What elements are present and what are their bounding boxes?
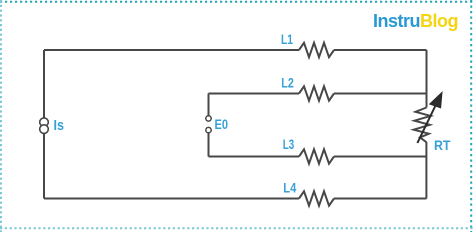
rheostat RT arrow xyxy=(417,92,442,143)
rheostat RT zigzag xyxy=(414,108,431,143)
wire: L2 row right segment xyxy=(334,93,427,95)
svg-text:L4: L4 xyxy=(283,180,296,196)
wire: E0 vertical upper xyxy=(208,94,210,116)
current source Is symbol xyxy=(40,118,49,134)
wire: L4 row right segment xyxy=(334,198,427,200)
wire: E0 vertical lower xyxy=(208,133,210,157)
wire: L1 row right segment xyxy=(334,49,427,51)
wire: right vertical upper (L1 to RT) xyxy=(426,50,428,108)
svg-text:E0: E0 xyxy=(215,116,229,132)
wire: top-left L1 row left segment xyxy=(44,49,299,51)
resistor L2 xyxy=(299,86,334,100)
wire: left vertical lower (Is to bottom corner) xyxy=(43,133,45,198)
svg-text:L1: L1 xyxy=(281,31,293,47)
svg-text:RT: RT xyxy=(434,137,451,153)
wire: L4 row left segment xyxy=(44,198,299,200)
wire: L2 row left segment xyxy=(209,93,300,95)
svg-text:L2: L2 xyxy=(281,75,294,91)
node E0 terminals xyxy=(206,116,211,133)
logo InstruBlog xyxy=(373,11,458,32)
resistor L3 xyxy=(299,149,334,163)
resistor L1 xyxy=(299,43,334,57)
wire: L3 row left segment xyxy=(209,156,300,158)
wire: L3 row right segment xyxy=(334,156,427,158)
wire: right vertical lower (RT to L4) xyxy=(425,142,427,199)
svg-text:Is: Is xyxy=(54,117,65,134)
wire: left vertical upper (Is to top corner) xyxy=(43,50,45,118)
svg-text:L3: L3 xyxy=(283,136,295,152)
resistor L4 xyxy=(299,191,334,205)
